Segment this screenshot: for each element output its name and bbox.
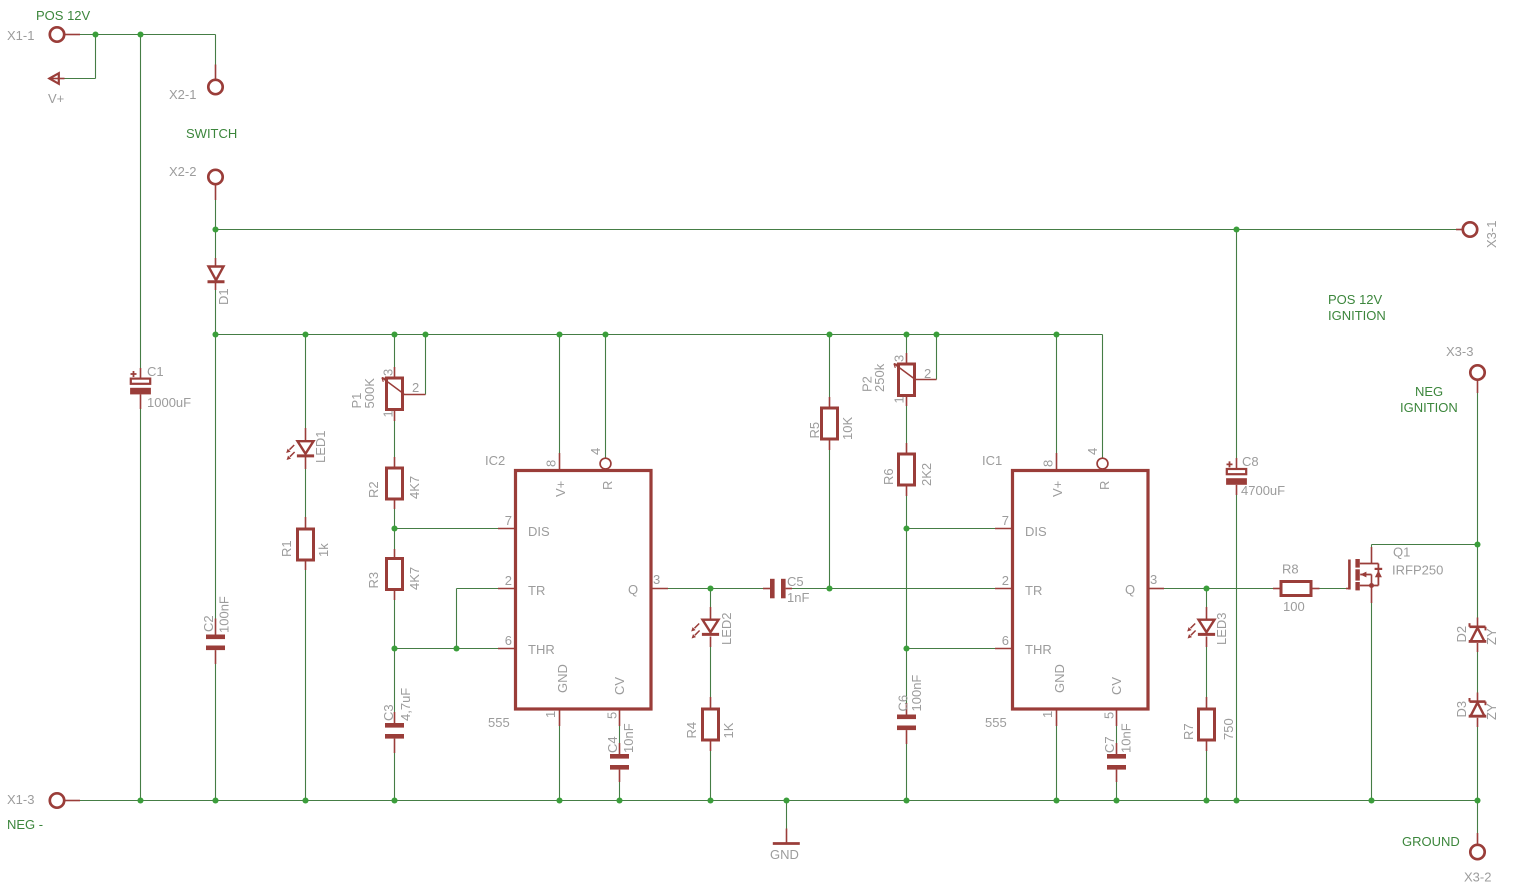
svg-text:IC1: IC1 (982, 453, 1002, 468)
svg-text:3: 3 (653, 572, 660, 587)
svg-text:4: 4 (588, 448, 603, 455)
svg-text:R5: R5 (807, 422, 822, 439)
svg-text:DIS: DIS (1025, 524, 1047, 539)
svg-text:R: R (1097, 481, 1112, 490)
svg-text:250k: 250k (872, 363, 887, 392)
svg-text:C5: C5 (787, 574, 804, 589)
svg-text:TR: TR (528, 583, 545, 598)
svg-text:C3: C3 (381, 704, 396, 721)
svg-text:R7: R7 (1181, 723, 1196, 740)
svg-text:5: 5 (605, 712, 620, 719)
svg-text:GND: GND (770, 847, 799, 862)
svg-text:POS 12V: POS 12V (36, 8, 91, 23)
svg-text:2: 2 (412, 380, 419, 395)
svg-text:Q1: Q1 (1393, 545, 1410, 560)
svg-text:100: 100 (1283, 599, 1305, 614)
svg-text:8: 8 (544, 460, 559, 467)
svg-text:10nF: 10nF (621, 723, 636, 753)
svg-text:X3-1: X3-1 (1484, 221, 1499, 248)
svg-text:10nF: 10nF (1119, 723, 1134, 753)
svg-text:GROUND: GROUND (1402, 834, 1460, 849)
svg-text:C7: C7 (1102, 736, 1117, 753)
svg-text:2: 2 (924, 366, 931, 381)
svg-text:100nF: 100nF (909, 675, 924, 712)
svg-text:1K: 1K (721, 722, 736, 738)
svg-text:X1-3: X1-3 (7, 792, 34, 807)
svg-text:R: R (600, 481, 615, 490)
svg-text:4K7: 4K7 (407, 476, 422, 499)
svg-text:LED3: LED3 (1214, 612, 1229, 645)
svg-text:500K: 500K (362, 378, 377, 409)
svg-text:X2-2: X2-2 (169, 164, 196, 179)
svg-text:CV: CV (612, 677, 627, 695)
svg-text:X3-3: X3-3 (1446, 344, 1473, 359)
svg-text:IGNITION: IGNITION (1400, 400, 1458, 415)
svg-text:4K7: 4K7 (407, 567, 422, 590)
svg-text:2: 2 (1002, 573, 1009, 588)
svg-text:4700uF: 4700uF (1241, 483, 1285, 498)
svg-text:1000uF: 1000uF (147, 395, 191, 410)
svg-text:IGNITION: IGNITION (1328, 308, 1386, 323)
svg-text:3: 3 (381, 369, 396, 376)
svg-text:R4: R4 (684, 722, 699, 739)
svg-text:3: 3 (892, 355, 907, 362)
svg-text:C4: C4 (605, 736, 620, 753)
svg-text:THR: THR (528, 642, 555, 657)
svg-text:ZY: ZY (1484, 628, 1499, 645)
svg-text:4: 4 (1085, 448, 1100, 455)
svg-text:R8: R8 (1282, 562, 1299, 577)
svg-text:DIS: DIS (528, 524, 550, 539)
svg-text:GND: GND (555, 664, 570, 693)
svg-text:555: 555 (985, 715, 1007, 730)
svg-text:8: 8 (1041, 460, 1056, 467)
svg-text:5: 5 (1102, 712, 1117, 719)
svg-text:SWITCH: SWITCH (186, 126, 237, 141)
svg-text:R2: R2 (366, 481, 381, 498)
svg-text:4,7uF: 4,7uF (398, 688, 413, 721)
svg-text:GND: GND (1052, 664, 1067, 693)
svg-text:NEG: NEG (1415, 384, 1443, 399)
svg-text:2K2: 2K2 (919, 463, 934, 486)
svg-text:3: 3 (1150, 572, 1157, 587)
svg-text:100nF: 100nF (217, 596, 232, 633)
svg-text:V+: V+ (48, 91, 64, 106)
svg-text:POS 12V: POS 12V (1328, 292, 1383, 307)
svg-text:7: 7 (1002, 513, 1009, 528)
svg-text:1: 1 (543, 711, 558, 718)
svg-text:C8: C8 (1242, 454, 1259, 469)
svg-text:LED2: LED2 (719, 612, 734, 645)
svg-text:IC2: IC2 (485, 453, 505, 468)
svg-text:6: 6 (505, 633, 512, 648)
svg-text:C2: C2 (201, 615, 216, 632)
svg-text:X1-1: X1-1 (7, 28, 34, 43)
svg-text:V+: V+ (553, 481, 568, 497)
svg-text:1: 1 (1040, 711, 1055, 718)
svg-text:LED1: LED1 (313, 430, 328, 463)
svg-text:TR: TR (1025, 583, 1042, 598)
svg-text:IRFP250: IRFP250 (1392, 563, 1443, 578)
svg-text:R6: R6 (881, 468, 896, 485)
svg-text:R3: R3 (366, 572, 381, 589)
svg-text:1k: 1k (316, 543, 331, 557)
svg-text:D1: D1 (216, 288, 231, 305)
svg-text:555: 555 (488, 715, 510, 730)
svg-text:ZY: ZY (1484, 703, 1499, 720)
svg-text:6: 6 (1002, 633, 1009, 648)
svg-text:7: 7 (505, 513, 512, 528)
svg-text:2: 2 (505, 573, 512, 588)
svg-text:NEG -: NEG - (7, 817, 43, 832)
svg-text:D2: D2 (1454, 626, 1469, 643)
svg-text:10K: 10K (840, 417, 855, 440)
svg-text:X2-1: X2-1 (169, 87, 196, 102)
svg-text:Q: Q (1125, 582, 1135, 597)
svg-text:V+: V+ (1050, 481, 1065, 497)
svg-text:D3: D3 (1454, 701, 1469, 718)
svg-text:1: 1 (381, 410, 396, 417)
svg-text:750: 750 (1221, 718, 1236, 740)
svg-text:Q: Q (628, 582, 638, 597)
svg-text:THR: THR (1025, 642, 1052, 657)
svg-text:X3-2: X3-2 (1464, 870, 1491, 885)
svg-text:C1: C1 (147, 364, 164, 379)
svg-text:CV: CV (1109, 677, 1124, 695)
svg-text:1nF: 1nF (787, 590, 809, 605)
svg-text:1: 1 (892, 396, 907, 403)
svg-text:R1: R1 (279, 540, 294, 557)
